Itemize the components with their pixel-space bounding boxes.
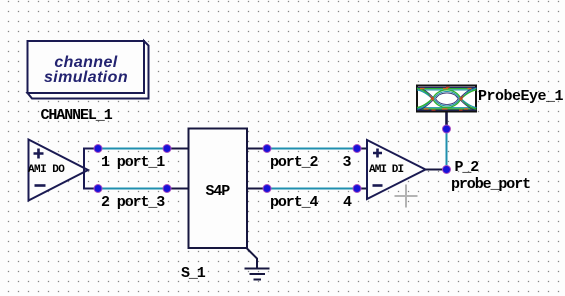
label net port_4 — [270, 194, 317, 211]
label ProbeEye_1 — [478, 88, 563, 105]
junction node on port_1 at TX — [94, 145, 102, 153]
wire: navy stub S4P pin 4 to junction — [247, 188, 267, 190]
junction node on port_3 at S4P — [163, 185, 171, 193]
junction node probe_port P_2 — [443, 166, 451, 174]
wire: navy stub probe pin down from eye probe — [445, 113, 448, 130]
channel simulation box title text — [27, 55, 145, 86]
wire: cyan net probe_port vertical — [446, 129, 448, 170]
label AMI DI inside RX — [369, 164, 403, 176]
label CHANNEL_1 — [41, 107, 112, 124]
junction node under eye probe — [443, 125, 451, 133]
label pin 3 — [343, 154, 351, 171]
label S4P inside block — [206, 183, 230, 200]
S-parameter block S_1 S4P body — [189, 129, 248, 249]
label AMI DO inside TX — [28, 164, 64, 176]
differential output bracket of AMI DO — [84, 148, 98, 190]
receiver U2 AMI DI triangle — [367, 140, 426, 199]
wire: navy stub junction to S4P pin 1 — [167, 148, 189, 150]
junction node on port_1 at S4P — [163, 145, 171, 153]
label probe_port — [451, 176, 530, 193]
wire: navy stub S4P pin 3 to junction — [247, 148, 267, 150]
wire: cyan net port_3 from TX to junction — [98, 188, 167, 190]
plus symbol on AMI DI — [373, 149, 382, 158]
wire: navy stub into AMI DI pin 4 — [357, 188, 367, 190]
junction node on port_2 at RX — [353, 145, 361, 153]
wire: cyan net port_4 to RX — [267, 188, 357, 190]
junction node on port_2 at S4P — [263, 145, 271, 153]
transmitter U1 AMI DO triangle — [29, 140, 89, 201]
junction node on port_4 at RX — [353, 185, 361, 193]
label pin 2 and net port_3 — [101, 194, 164, 211]
wire: cyan net port_1 from TX to junction — [98, 148, 167, 150]
label net port_2 — [270, 154, 317, 171]
label S_1 — [181, 265, 205, 282]
minus symbol on AMI DI — [373, 184, 383, 187]
plus symbol on AMI DO — [34, 149, 44, 159]
label pin 4 — [343, 194, 351, 211]
wire: RX output to probe junction P_2 — [426, 169, 447, 171]
wire: navy stub junction to S4P pin 2 — [167, 188, 189, 190]
junction node on port_4 at S4P — [263, 185, 271, 193]
label pin 1 and net port_1 — [101, 154, 164, 171]
eye probe ProbeEye_1 icon — [417, 86, 477, 112]
ground symbol at S4P reference pin — [245, 249, 270, 280]
wire: cyan net port_2 to RX — [267, 148, 357, 150]
junction node on port_3 at TX — [94, 185, 102, 193]
cursor crosshair mark — [395, 185, 418, 208]
wire: navy stub into AMI DI pin 3 — [357, 148, 367, 150]
channel simulation controller box CHANNEL_1 — [28, 41, 149, 99]
label P_2 — [455, 159, 479, 176]
minus symbol on AMI DO — [35, 184, 46, 187]
